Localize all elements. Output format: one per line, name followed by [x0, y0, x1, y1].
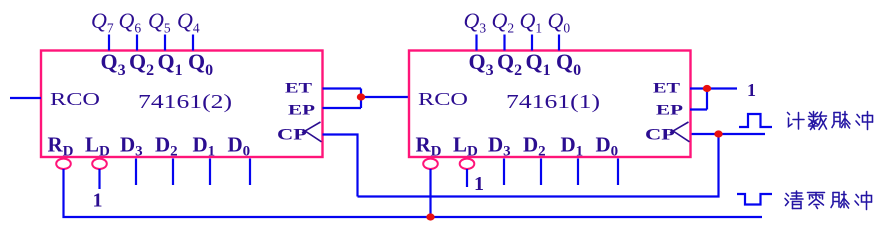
wire Q3 pin stub of U1: [475, 35, 477, 51]
wire CP stub of U2: [323, 135, 358, 197]
wire LD of U1 to logic 1: [466, 169, 468, 187]
wire ET stub of U1: [690, 87, 707, 89]
wire Q6 pin stub of U2: [136, 35, 138, 51]
clear pulse waveform symbol: [737, 194, 772, 205]
IC U2 74161(2) box: [41, 51, 323, 158]
junction dot at clear bus: [426, 213, 434, 220]
wire D2 pin stub of U2: [172, 159, 174, 186]
svg-text:1: 1: [93, 190, 103, 212]
wire Q2 pin stub of U1: [503, 35, 505, 51]
wire carry U2 ET/EP to U1 RCO: [361, 96, 409, 98]
wire Q7 pin stub of U2: [108, 35, 110, 51]
svg-text:CP: CP: [277, 127, 307, 144]
svg-text:EP: EP: [288, 103, 315, 119]
junction dot at U1 CP: [714, 130, 722, 137]
inversion bubble LD of U2: [92, 159, 107, 169]
wire ET stub of U2: [323, 87, 362, 89]
clock edge symbol of U1 CP pin: [670, 122, 690, 142]
net label clear pulse (qing ling mai chong): [785, 191, 872, 210]
wire D2 pin stub of U1: [540, 159, 542, 186]
wire RD of U2 to clear bus: [64, 169, 763, 217]
svg-text:RCO: RCO: [50, 89, 100, 109]
inversion bubble LD of U1: [460, 159, 475, 169]
wire CP bus: [358, 134, 719, 197]
wire CP stub of U1 to count pulse: [719, 133, 766, 135]
wire RD of U1 to clear bus: [429, 169, 431, 217]
count pulse waveform symbol: [739, 114, 772, 127]
wire ET-EP tie of U1: [706, 89, 708, 110]
wire Q0 pin stub of U1: [558, 35, 560, 51]
svg-text:1: 1: [747, 80, 756, 100]
wire D0 pin stub of U2: [249, 159, 251, 186]
wire D0 pin stub of U1: [617, 159, 619, 186]
wire D3 pin stub of U1: [503, 159, 505, 186]
svg-text:CP: CP: [645, 127, 675, 144]
inversion bubble RD of U2: [56, 159, 71, 169]
net label count pulse (ji shu mai chong): [788, 112, 873, 130]
svg-text:ET: ET: [285, 81, 312, 97]
inversion bubble RD of U1: [423, 159, 438, 169]
junction dot at U1 ET/EP tie: [703, 85, 711, 92]
wire D1 pin stub of U1: [577, 159, 579, 186]
svg-text:RCO: RCO: [418, 89, 468, 109]
wire LD of U2 to logic 1: [98, 169, 100, 189]
wire Q4 pin stub of U2: [192, 35, 194, 51]
svg-text:74161(1): 74161(1): [506, 91, 600, 113]
wire EP stub of U2: [323, 107, 362, 109]
svg-text:ET: ET: [653, 81, 680, 97]
wire Q5 pin stub of U2: [164, 35, 166, 51]
wire ET-EP tie of U2: [360, 89, 362, 109]
IC U1 74161(1) box: [409, 51, 691, 158]
wire RCO input stub of U2: [10, 97, 41, 99]
wire EP stub of U1: [690, 108, 707, 110]
svg-text:1: 1: [474, 173, 484, 195]
wire D3 pin stub of U2: [135, 159, 137, 186]
svg-text:74161(2): 74161(2): [138, 91, 232, 113]
clock edge symbol of U2 CP pin: [302, 122, 322, 142]
wire D1 pin stub of U2: [209, 159, 211, 186]
wire U1 ET/EP to logic 1: [707, 87, 737, 89]
svg-text:EP: EP: [656, 103, 683, 119]
junction dot at U2 ET/EP tie: [357, 93, 365, 100]
wire Q1 pin stub of U1: [531, 35, 533, 51]
